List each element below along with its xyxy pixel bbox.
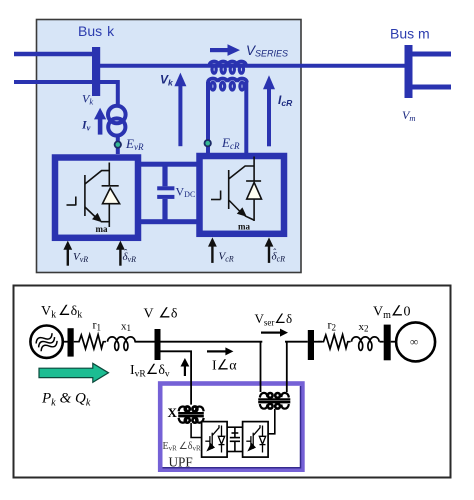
converter box 1 (shunt VSC) [55,158,138,238]
IGBT symbol converter 1 [67,163,119,228]
svg-text:Bus m: Bus m [390,26,430,42]
resistor r1 [74,335,106,349]
wire series break right to bus3 [285,341,308,343]
arrow Vser [261,329,288,337]
wire shunt transformer bottom to converter1 [191,423,202,438]
arrow VvR input [63,241,72,266]
DC rails between UPF converters [227,426,243,428]
series transformer primary coil [210,62,246,74]
svg-text:x2: x2 [359,321,369,334]
node EvR (green) [115,141,121,147]
bus bar 4 [384,325,391,361]
svg-text:∞: ∞ [410,337,418,349]
wire: main line panel edge to bus m [301,64,405,68]
wire: secondary left leg to EcR node and converter [206,82,210,154]
svg-text:I∠α: I∠α [212,359,237,374]
node EcR (green) [205,140,211,146]
arrow deltavR input [116,241,125,266]
wire: right drop to series transformer [286,342,288,392]
wire series transformer bottom tap to converter2 [268,409,275,434]
panel box [14,286,451,478]
svg-text:x1: x1 [121,321,131,334]
arrow Vseries [210,44,240,56]
generator Vk [30,326,62,358]
series transformer (UPF) windings [260,393,289,409]
svg-text:Bus k: Bus k [78,23,115,39]
wire x2 to bus4 [380,341,384,343]
wire bus4 to infinite bus [391,341,396,343]
mini IGBT in UPF converter 1 [205,425,224,452]
bus k bar [92,47,100,96]
wire: bus m right line 1 [412,52,451,57]
capacitor VDC [157,165,174,220]
converter box 2 (series VSC) [200,156,285,234]
panel box [37,20,302,273]
svg-text:ˆ: ˆ [273,247,276,257]
svg-text:V ∠δ: V ∠δ [144,307,178,322]
bus bar 1 [68,328,74,356]
arrow IvR (phasor up) [181,358,190,376]
shunt tap wire from bus2 [161,351,192,404]
svg-text:Pk& Qk: Pk& Qk [41,391,91,409]
wire bus3 to r2 [314,341,322,343]
mini IGBT in UPF converter 2 [246,425,265,452]
wire: bus m right line 2 [412,85,451,90]
UPF box shadow line [163,386,301,468]
wire: bus k left line 2 into shunt branch [14,82,118,105]
arrow I angle alpha [207,347,233,355]
IGBT symbol converter 2 [211,157,261,222]
UPF box (purple) [160,384,302,470]
wire gen to bus1 [63,341,68,343]
svg-text:ma: ma [238,222,250,232]
bus m bar [405,45,413,98]
arrow deltacR input [265,237,274,263]
bus bar 3 [308,330,314,360]
current source Iv (two circles) [108,106,126,136]
wire: secondary right leg to converter [244,82,248,154]
bus bar 2 [155,329,161,360]
shunt transformer X windings [179,407,204,423]
svg-text:Vm∠0: Vm∠0 [373,305,410,322]
wire: main line bus k to panel edge [99,64,301,68]
wire: bus k left line 1 [14,52,93,57]
series transformer secondary coil [208,79,247,90]
converter box 1 (UPF) [202,422,228,458]
capacitor between UPF converters [230,427,240,451]
svg-text:UPF: UPF [169,455,193,470]
converter box 2 (UPF) [243,422,269,458]
inductor x1 [108,337,136,350]
DC link top rail [141,162,200,167]
arrow Iv [94,108,106,135]
svg-text:X: X [168,405,178,420]
wire: source to EvR node [116,136,120,154]
wire: left drop to series transformer [260,342,262,392]
arrow VcR input [208,237,217,263]
DC link bottom rail [141,219,200,224]
wire bus2 to series break left [161,341,263,343]
arrow IcR (phasor) [263,75,275,146]
arrow Pk Qk (teal) [39,363,109,382]
inductor x2 [352,337,380,351]
svg-text:ˆ: ˆ [124,248,127,258]
resistor r2 [318,335,351,349]
wire x1 to bus2 [135,341,155,343]
arrow Vk (phasor) [174,73,186,147]
svg-text:Vk∠δk: Vk∠δk [41,304,82,321]
infinite bus circle [396,322,435,361]
svg-text:ma: ma [96,224,108,234]
